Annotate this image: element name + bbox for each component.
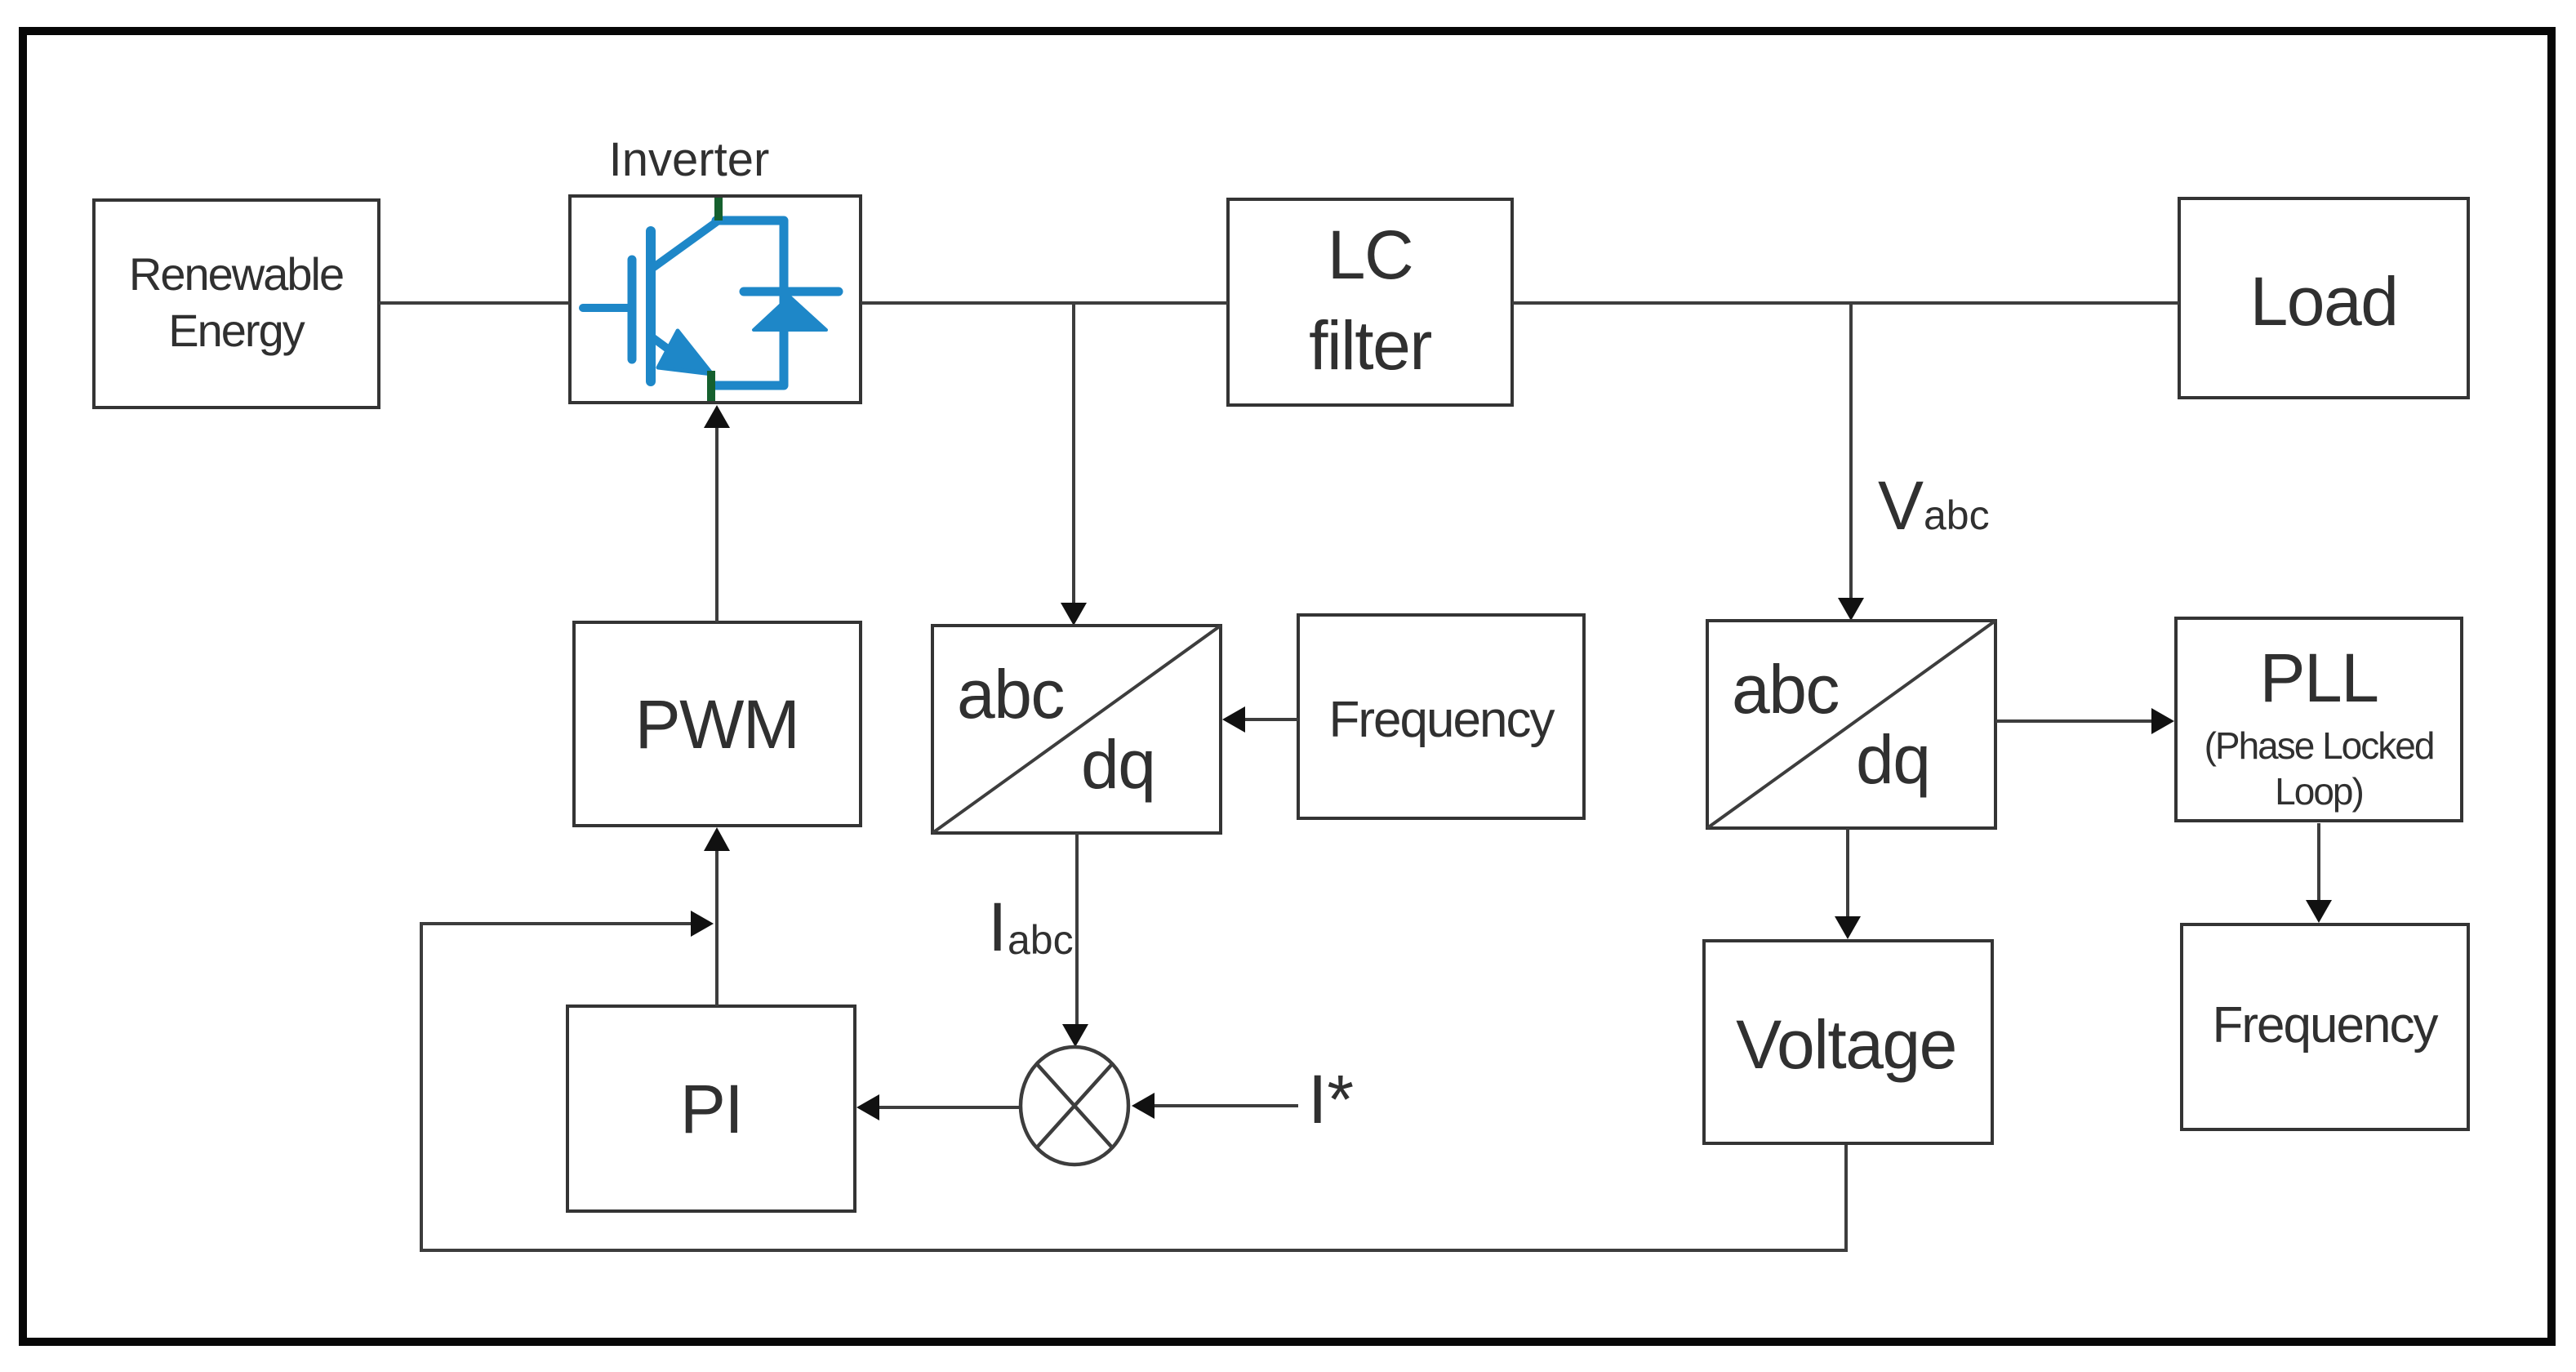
diode triangle <box>754 296 826 330</box>
svg-text:Inverter: Inverter <box>609 133 770 186</box>
IGBT body bar <box>646 231 656 381</box>
svg-text:abc: abc <box>1008 917 1074 963</box>
svg-text:PWM: PWM <box>635 686 799 763</box>
svg-text:abc: abc <box>1732 651 1839 728</box>
svg-text:abc: abc <box>1924 492 1990 538</box>
wire branch current sense <box>1061 303 1087 626</box>
svg-text:Renewable: Renewable <box>129 248 343 300</box>
svg-text:dq: dq <box>1081 726 1155 803</box>
block Load <box>2179 198 2468 398</box>
label Iabc <box>988 889 1074 965</box>
arrow PWM to Inverter <box>704 405 730 622</box>
svg-text:Energy: Energy <box>168 305 305 356</box>
block Renewable Energy <box>94 200 379 408</box>
block Frequency bottom <box>2182 924 2468 1129</box>
svg-text:Loop): Loop) <box>2275 770 2363 813</box>
wire LC filter to Load <box>1512 301 2179 305</box>
svg-text:PI: PI <box>680 1071 742 1147</box>
svg-text:filter: filter <box>1309 307 1431 384</box>
wire branch Vabc <box>1838 303 1864 621</box>
svg-text:V: V <box>1878 467 1924 544</box>
wire Renewable to Inverter <box>379 301 570 305</box>
IGBT gate lead <box>583 304 629 312</box>
mixer circle <box>1021 1047 1128 1165</box>
diode cathode bar <box>744 287 839 296</box>
arrow PLL to Frequency <box>2306 823 2332 923</box>
arrow Frequency to abc/dq <box>1222 706 1298 733</box>
arrow Istar to mixer <box>1132 1093 1298 1119</box>
block Inverter box <box>570 196 861 403</box>
block PI <box>567 1006 855 1211</box>
label Inverter <box>609 133 770 186</box>
svg-text:I*: I* <box>1308 1061 1354 1138</box>
svg-text:LC: LC <box>1328 216 1413 293</box>
svg-text:dq: dq <box>1856 721 1929 798</box>
block Frequency mid <box>1298 615 1584 818</box>
wire Inverter to LC filter <box>861 301 1228 305</box>
IGBT top rail <box>714 220 784 385</box>
arrow mixer to PI <box>856 1094 1021 1120</box>
green tick bottom <box>707 371 715 401</box>
svg-text:PLL: PLL <box>2260 639 2378 716</box>
svg-text:Voltage: Voltage <box>1736 1006 1956 1083</box>
block LC filter <box>1228 199 1512 405</box>
IGBT gate bar <box>628 260 637 359</box>
IGBT emitter lead <box>653 338 678 356</box>
block PLL <box>2176 618 2462 821</box>
label I* <box>1308 1061 1354 1138</box>
label Vabc <box>1878 467 1990 544</box>
svg-text:Load: Load <box>2250 263 2398 340</box>
IGBT emitter arrow <box>658 331 712 374</box>
wire abc/dq to mixer <box>1062 833 1088 1047</box>
svg-text:Frequency: Frequency <box>2213 997 2439 1053</box>
svg-text:Frequency: Frequency <box>1329 692 1555 748</box>
green tick top <box>714 198 723 220</box>
svg-text:I: I <box>988 889 1007 965</box>
arrow PI to PWM <box>704 827 730 1006</box>
block Voltage <box>1704 941 1992 1143</box>
block abc/dq left <box>932 626 1221 833</box>
feedback wire from Voltage <box>421 911 1846 1250</box>
block abc/dq right <box>1707 621 1995 828</box>
svg-text:abc: abc <box>957 656 1064 733</box>
arrow abc/dq to Voltage <box>1835 828 1861 939</box>
svg-text:(Phase Locked: (Phase Locked <box>2205 724 2434 767</box>
block PWM <box>574 622 861 826</box>
IGBT collector diagonal <box>654 220 719 267</box>
arrow abc/dq to PLL <box>1995 708 2174 734</box>
